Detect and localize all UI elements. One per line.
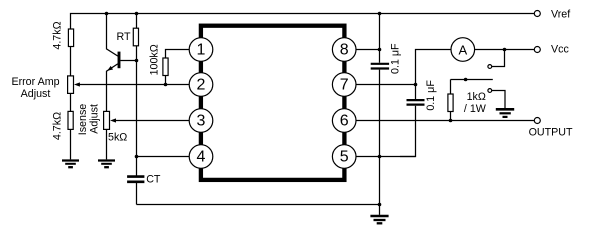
transistor Q1 base bar — [118, 52, 121, 69]
svg-text:3: 3 — [197, 113, 206, 130]
svg-text:0.1 μF: 0.1 μF — [425, 80, 437, 111]
svg-text:4.7kΩ: 4.7kΩ — [52, 21, 64, 49]
wire base Q1 — [120, 60, 136, 62]
wire main right vertical bottom — [379, 70, 381, 215]
svg-text:6: 6 — [340, 113, 349, 130]
wire emitter Q1 — [107, 64, 118, 112]
node dot top at RT column — [135, 12, 139, 16]
wire switch lever — [451, 79, 493, 81]
wire 100k bottom — [165, 76, 167, 85]
wire pin8 — [344, 49, 379, 51]
node dot switch pole — [464, 78, 468, 82]
wire pin4 row — [137, 156, 202, 158]
svg-text:100kΩ: 100kΩ — [148, 44, 160, 75]
svg-text:1kΩ: 1kΩ — [467, 91, 486, 103]
wire emitter column to ground — [106, 129, 108, 160]
svg-text:0.1 μF: 0.1 μF — [390, 43, 402, 74]
svg-text:Error Amp: Error Amp — [11, 76, 59, 88]
wire cap2 column top — [415, 85, 417, 100]
pin 7 — [332, 73, 356, 97]
svg-text:5kΩ: 5kΩ — [108, 131, 127, 143]
terminal Vref — [534, 11, 540, 17]
terminal Vcc — [534, 47, 540, 53]
wire CT column top — [136, 157, 138, 176]
wire 1k resistor bottom — [450, 112, 452, 121]
wire left column R1 to pot — [70, 47, 72, 76]
wire collector Q1 — [107, 14, 118, 57]
svg-text:7: 7 — [340, 77, 349, 94]
wire pin3 row — [116, 120, 201, 122]
switch contact 2 — [488, 89, 492, 93]
pin 6 — [332, 109, 356, 133]
svg-text:4: 4 — [197, 149, 206, 166]
pin 2 — [189, 73, 213, 97]
pin 5 — [332, 145, 356, 169]
capacitor CT — [127, 177, 144, 182]
wire cap2 column bottom to pin5 — [400, 106, 416, 157]
wire pin1 to 100k — [166, 50, 202, 59]
resistor R1 4.7k — [68, 29, 73, 47]
resistor RT — [133, 28, 138, 46]
wire 1k resistor top — [450, 80, 452, 95]
wire pin2 row — [80, 84, 202, 86]
svg-text:OUTPUT: OUTPUT — [529, 127, 573, 139]
wire pin7 — [344, 84, 415, 86]
node dot 1k-output — [449, 119, 453, 123]
node dot top at main vertical — [378, 12, 382, 16]
capacitor C2 0.1uF — [407, 100, 425, 105]
wire bottom rail — [137, 204, 380, 206]
pin 1 — [189, 38, 213, 62]
transistor Q1 emitter arrowhead — [107, 66, 113, 71]
wire ammeter left — [416, 50, 452, 85]
pin 3 — [189, 109, 213, 133]
terminal OUTPUT — [534, 118, 540, 124]
resistor R3 4.7k — [68, 111, 73, 129]
ammeter A — [451, 38, 475, 62]
wire RT column down to CT node — [136, 46, 138, 157]
node dot bottom rail ground — [378, 203, 382, 207]
node dot pin8-main — [378, 48, 382, 52]
node dot 100k-pin2 — [164, 83, 168, 87]
pin 4 — [189, 145, 213, 169]
pin 8 — [332, 38, 356, 62]
switch contact 1 — [488, 65, 492, 69]
wire pin5 — [344, 156, 415, 158]
svg-text:Vcc: Vcc — [551, 44, 569, 56]
wire ammeter right to Vcc — [475, 49, 535, 51]
resistor 1k — [448, 94, 453, 112]
ground G1 — [62, 161, 79, 168]
capacitor C1 0.1uF — [371, 64, 389, 69]
wire switch contact2 to ground — [492, 91, 505, 109]
svg-text:2: 2 — [197, 77, 206, 94]
svg-text:8: 8 — [340, 42, 349, 59]
svg-text:CT: CT — [146, 173, 161, 185]
wire left column R3 to ground — [70, 129, 72, 160]
wire pin6 OUTPUT row — [344, 120, 534, 122]
node dot Vcc-switch — [503, 48, 507, 52]
wire switch contact1 to Vcc node — [492, 50, 505, 67]
ground G2 — [98, 161, 115, 168]
wire left column pot to R3 — [70, 93, 72, 111]
potentiometer Error Amp — [68, 76, 74, 94]
arrowhead pot Error Amp — [74, 82, 80, 86]
node dot pin5-main — [378, 155, 382, 159]
ground G3 main — [370, 216, 388, 223]
IC U1 body — [201, 26, 345, 180]
svg-text:5: 5 — [340, 149, 349, 166]
svg-text:RT: RT — [117, 31, 132, 43]
wire CT column bottom — [136, 183, 138, 205]
wire main right vertical top — [379, 14, 381, 63]
node dot top at transistor column — [105, 12, 109, 16]
svg-text:A: A — [458, 42, 467, 57]
svg-text:Isense: Isense — [77, 104, 89, 136]
node dot CT-pin4 — [135, 155, 139, 159]
node dot base-RT — [135, 59, 139, 63]
wire RT column top — [136, 14, 138, 29]
wire top rail Vref — [71, 14, 535, 30]
svg-text:/ 1W: / 1W — [464, 103, 487, 115]
svg-text:4.7kΩ: 4.7kΩ — [52, 112, 64, 140]
svg-text:Vref: Vref — [551, 9, 570, 21]
resistor 100k — [163, 58, 168, 76]
ground G4 switch — [496, 109, 514, 117]
node dot pin7-cap2 — [414, 83, 418, 87]
svg-text:Adjust: Adjust — [21, 88, 51, 100]
potentiometer 5k Isense — [104, 111, 110, 129]
arrowhead pot 5k — [110, 118, 116, 122]
svg-text:Adjust: Adjust — [88, 104, 100, 134]
svg-text:1: 1 — [197, 42, 206, 59]
